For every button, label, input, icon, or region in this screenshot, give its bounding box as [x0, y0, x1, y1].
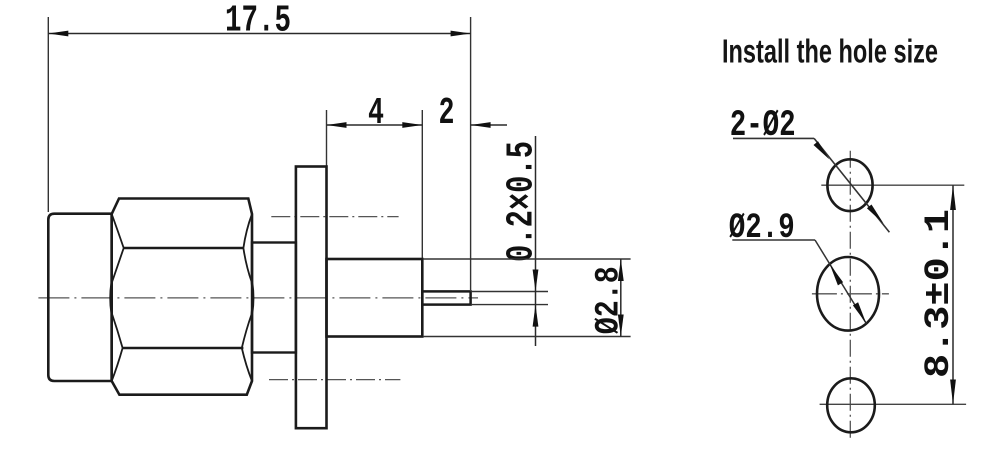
hex facet line lower — [123, 347, 244, 349]
neck between hex and flange — [252, 243, 296, 353]
main centerline — [38, 297, 478, 299]
svg-text:4: 4 — [368, 92, 384, 135]
dim 0.2 line — [535, 136, 537, 346]
leader underline for 2-dia2 — [733, 137, 814, 139]
arrow left of 17.5 — [48, 31, 68, 37]
svg-text:Install the hole size: Install the hole size — [722, 33, 938, 70]
svg-text:17.5: 17.5 — [225, 0, 291, 43]
dimension 2 line with outside arrow — [471, 124, 507, 126]
leader diagonal for 2-dia2 — [814, 138, 889, 232]
2-dia2 arrow lower — [867, 205, 884, 224]
hex chamfer facet right-bottom — [242, 313, 252, 381]
shaft bottom extension line — [423, 336, 631, 338]
dimension 4 extension line — [326, 110, 328, 166]
svg-text:2: 2 — [439, 92, 455, 135]
middle hole circle — [817, 257, 879, 331]
leader underline for dia2.9 — [732, 239, 815, 241]
top hole circle — [827, 159, 872, 211]
bottom hole circle — [827, 378, 875, 432]
dim 2.8 lower arrow — [618, 315, 624, 337]
dim 2.8 line — [620, 259, 622, 337]
shaft top extension line — [423, 258, 631, 260]
dimension 17.5 extension line left — [47, 17, 49, 212]
left block of connector body — [48, 214, 111, 381]
svg-text:Ø2.8: Ø2.8 — [591, 266, 629, 334]
middle hole centerline — [812, 293, 889, 295]
hex chamfer facet left-top — [112, 214, 124, 283]
dia2.9 arrow lower — [853, 302, 866, 323]
dim 2.8 upper arrow — [618, 259, 624, 281]
dimension 17.5 extension line right — [470, 17, 472, 290]
dim 0.2 upper arrow — [533, 270, 539, 292]
arrow left of 4 — [327, 122, 347, 128]
hex chamfer facet left-bottom — [112, 313, 123, 381]
bottom hole centerline / extension — [820, 403, 967, 405]
hex facet line upper — [124, 247, 244, 249]
dim 8.3 upper arrow — [950, 185, 956, 210]
dia2.9 arrow upper — [830, 264, 843, 285]
top hole centerline / extension — [821, 184, 964, 186]
arrow right of 17.5 — [451, 31, 471, 37]
lower hole centerline — [269, 379, 400, 381]
svg-text:0.2×0.5: 0.2×0.5 — [501, 141, 544, 262]
svg-text:8.3±0.1: 8.3±0.1 — [919, 209, 959, 378]
dim 8.3 line — [952, 185, 954, 404]
leader diagonal for dia2.9 — [815, 240, 866, 324]
flange — [296, 167, 327, 429]
dim 0.2 lower arrow — [533, 305, 539, 327]
pin top extension line — [471, 291, 548, 293]
dimension 4/2 shared extension line — [421, 110, 423, 258]
dimension 4 line — [327, 124, 423, 126]
dim 8.3 lower arrow — [950, 380, 956, 405]
shaft — [327, 259, 423, 337]
arrow of dim 2 — [471, 122, 491, 128]
arrow right of 4 — [402, 122, 422, 128]
upper hole centerline — [271, 216, 398, 218]
hex nut outline — [111, 199, 254, 395]
hex chamfer facet right-top — [243, 214, 252, 283]
svg-text:2-Ø2: 2-Ø2 — [730, 105, 796, 147]
2-dia2 arrow upper — [814, 141, 830, 159]
svg-text:Ø2.9: Ø2.9 — [729, 208, 795, 248]
vertical centerline of hole pattern — [849, 151, 851, 440]
dimension 17.5 line — [48, 33, 470, 35]
center pin — [422, 291, 470, 304]
pin bottom extension line — [471, 304, 548, 306]
